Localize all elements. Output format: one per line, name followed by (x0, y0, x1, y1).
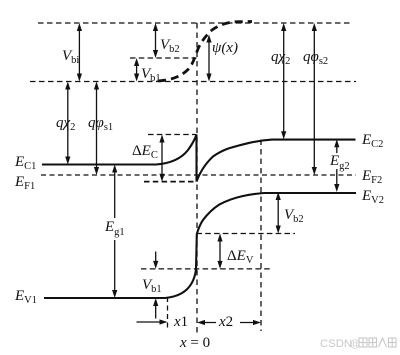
svg-text:ψ(x): ψ(x) (212, 40, 238, 56)
label delta EC (131, 141, 159, 157)
conduction band EC1 spike and EC2 curve (42, 135, 356, 182)
arrow psi(x) (206, 35, 211, 82)
junction x=0 vertical dashed line (196, 23, 198, 334)
label delta EV (226, 247, 255, 262)
arrow Vb1 top (134, 58, 139, 82)
vacuum level psi(x) thick dashed curve (158, 22, 252, 82)
delta EV bottom dashed line (141, 268, 271, 270)
arrow Vb1 lower up (153, 298, 158, 319)
intermediate dashed line Vb1/Vb2 split (130, 57, 197, 59)
arrow delta EV (217, 234, 222, 269)
arrow Vb1 lower down (153, 252, 158, 269)
arrow q chi2 right (281, 23, 286, 139)
arrow x2 horizontal double (197, 320, 261, 325)
arrow Vb2 right (276, 192, 281, 234)
vacuum level right dashed line (38, 22, 351, 24)
label Eg2 (329, 153, 355, 169)
arrow q phi s1 (94, 82, 99, 176)
watermark CSDN (320, 338, 396, 350)
Fermi level EF dashed line (41, 174, 356, 176)
arrow x1 horizontal (137, 319, 168, 324)
EC spike top dashed line (148, 134, 197, 136)
arrow Eg2 (334, 139, 339, 192)
vacuum level left dashed line (30, 81, 356, 83)
delta EC bottom dashed line (144, 181, 197, 183)
watermark CJK glyph blocks (359, 338, 396, 347)
arrow Vb2 top (153, 23, 158, 58)
svg-text:x = 0: x = 0 (179, 335, 210, 351)
svg-text:CSDN: CSDN (320, 338, 352, 350)
x2 edge vertical dashed line (260, 140, 262, 332)
svg-text:x2: x2 (218, 314, 233, 330)
arrow Vbi (77, 23, 82, 82)
valence band EV1 step and EV2 curve (44, 193, 356, 298)
delta EV top dashed line (197, 233, 296, 235)
arrow delta EC (159, 135, 164, 182)
arrow q phi s2 (312, 23, 317, 175)
svg-text:x1: x1 (173, 314, 188, 330)
label Eg1 (103, 218, 126, 240)
arrow q chi2 left (65, 82, 70, 165)
arrow Eg1 (112, 165, 117, 299)
label x2 (216, 312, 240, 328)
x1 edge vertical dashed line (167, 297, 169, 328)
